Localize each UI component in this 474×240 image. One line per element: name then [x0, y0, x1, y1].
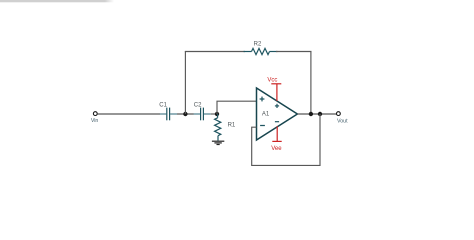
capacitor C2: [194, 108, 211, 121]
resistor R1: [215, 114, 221, 141]
negative supply mark: [275, 121, 279, 123]
terminal Vin: [91, 112, 99, 124]
Vcc supply: [267, 78, 281, 101]
svg-text:R2: R2: [254, 42, 262, 48]
wire top rail right segment: [276, 51, 312, 53]
wire node B to op-amp noninverting input: [217, 101, 257, 114]
node B junction dot: [215, 112, 219, 116]
feedback wire output to inverting input: [252, 114, 320, 165]
svg-text:Vout: Vout: [337, 118, 348, 124]
svg-text:C1: C1: [159, 103, 167, 109]
svg-text:C2: C2: [194, 103, 202, 109]
svg-text:Vin: Vin: [91, 118, 99, 124]
node A junction dot: [183, 112, 187, 116]
resistor R2: [244, 48, 278, 54]
wire node A up to feedback rail: [184, 51, 186, 114]
inverting input mark: [260, 125, 265, 127]
wire top rail left segment: [185, 51, 245, 53]
terminal Vout: [337, 112, 349, 125]
wire op-amp output to Vout: [297, 113, 336, 115]
svg-text:Vee: Vee: [271, 146, 282, 152]
ground: [212, 141, 224, 144]
capacitor C1: [160, 108, 177, 121]
Vee supply: [271, 126, 282, 152]
wire Vin to C1: [97, 113, 160, 115]
node C junction dot: [309, 112, 313, 116]
op-amp A1: [257, 88, 298, 140]
svg-text:Vcc: Vcc: [267, 78, 277, 84]
wire rail down to output node: [310, 51, 312, 114]
noninverting input mark: [260, 97, 265, 102]
svg-text:A1: A1: [262, 112, 270, 118]
svg-text:R1: R1: [228, 123, 236, 129]
wire C2 to node B: [211, 113, 217, 115]
positive supply mark: [275, 104, 279, 108]
wire C1 to node A: [177, 113, 194, 115]
node D junction dot: [318, 112, 322, 116]
